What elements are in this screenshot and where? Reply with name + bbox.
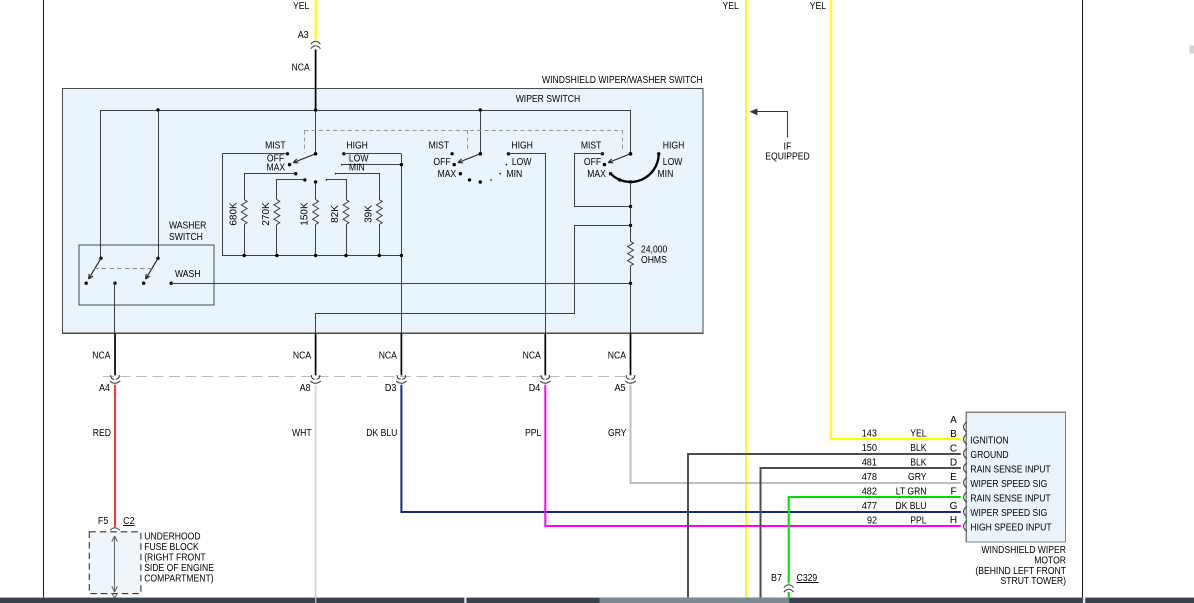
svg-text:F: F [950,486,956,497]
svg-text:MIST: MIST [429,140,450,151]
svg-text:BLK: BLK [910,443,927,454]
svg-text:B7: B7 [771,573,782,584]
svg-text:DK BLU: DK BLU [366,428,397,439]
svg-text:PPL: PPL [910,515,927,526]
svg-text:BLK: BLK [910,457,927,468]
svg-text:A3: A3 [298,30,309,41]
svg-text:WHT: WHT [292,428,312,439]
svg-text:NCA: NCA [523,351,541,362]
svg-text:478: 478 [862,472,878,483]
svg-text:39K: 39K [364,205,375,223]
svg-text:477: 477 [862,501,878,512]
svg-text:LOW: LOW [512,157,532,168]
svg-text:H: H [950,515,957,526]
svg-text:GROUND: GROUND [970,450,1008,461]
svg-text:482: 482 [862,486,878,497]
svg-text:24,000: 24,000 [641,245,668,256]
svg-text:G: G [950,501,958,512]
svg-text:LT GRN: LT GRN [896,486,927,497]
svg-text:MOTOR: MOTOR [1034,556,1066,567]
svg-text:OHMS: OHMS [641,255,667,266]
svg-text:SWITCH: SWITCH [169,232,203,243]
svg-text:DK BLU: DK BLU [895,501,926,512]
svg-text:RAIN SENSE INPUT: RAIN SENSE INPUT [970,465,1050,476]
svg-text:IGNITION: IGNITION [970,436,1008,447]
svg-text:COMPARTMENT): COMPARTMENT) [144,574,213,585]
svg-text:A8: A8 [300,383,311,394]
svg-text:YEL: YEL [810,1,827,12]
svg-text:RED: RED [93,428,111,439]
svg-text:92: 92 [867,515,877,526]
svg-text:C: C [950,444,957,455]
svg-text:270K: 270K [261,202,272,226]
svg-text:HIGH: HIGH [346,140,368,151]
svg-text:WINDSHIELD WIPER: WINDSHIELD WIPER [981,545,1066,556]
svg-text:WIPER SPEED SIG: WIPER SPEED SIG [970,508,1047,519]
svg-text:MAX: MAX [267,163,286,174]
svg-text:F5: F5 [98,516,109,527]
svg-text:MIN: MIN [349,163,365,174]
svg-text:GRY: GRY [608,428,627,439]
svg-text:D: D [950,457,957,468]
svg-text:GRY: GRY [908,472,927,483]
svg-text:481: 481 [862,457,878,468]
svg-text:YEL: YEL [910,428,927,439]
svg-text:HIGH: HIGH [511,140,533,151]
svg-text:NCA: NCA [292,63,310,74]
svg-text:MIN: MIN [506,169,522,180]
svg-text:A4: A4 [99,383,110,394]
svg-text:PPL: PPL [525,428,542,439]
svg-text:B: B [950,429,957,440]
svg-text:WINDSHIELD WIPER/WASHER SWITCH: WINDSHIELD WIPER/WASHER SWITCH [542,75,703,86]
svg-text:RAIN SENSE INPUT: RAIN SENSE INPUT [970,494,1050,505]
svg-text:WASH: WASH [175,269,201,280]
svg-text:OFF: OFF [433,157,450,168]
svg-text:SIDE OF ENGINE: SIDE OF ENGINE [144,563,214,574]
svg-text:E: E [950,472,957,483]
svg-text:UNDERHOOD: UNDERHOOD [144,531,200,542]
svg-text:680K: 680K [229,202,240,226]
svg-text:MAX: MAX [438,169,457,180]
svg-text:NCA: NCA [608,351,626,362]
svg-text:150: 150 [862,443,878,454]
svg-text:(RIGHT FRONT: (RIGHT FRONT [144,553,206,564]
svg-text:150K: 150K [300,202,311,226]
svg-text:WIPER SWITCH: WIPER SWITCH [516,94,581,105]
svg-text:82K: 82K [330,205,341,223]
svg-text:MIN: MIN [658,169,674,180]
svg-text:HIGH: HIGH [663,140,685,151]
svg-text:MIST: MIST [265,140,286,151]
svg-text:YEL: YEL [293,1,310,12]
svg-text:NCA: NCA [379,351,397,362]
svg-text:143: 143 [862,428,878,439]
svg-text:LOW: LOW [663,157,683,168]
svg-text:NCA: NCA [92,351,110,362]
svg-text:OFF: OFF [584,157,601,168]
svg-text:WIPER SPEED SIG: WIPER SPEED SIG [970,479,1047,490]
svg-text:MAX: MAX [587,169,606,180]
svg-text:EQUIPPED: EQUIPPED [765,152,809,163]
svg-text:D4: D4 [529,383,541,394]
svg-text:A5: A5 [615,383,626,394]
svg-text:D3: D3 [385,383,397,394]
svg-text:HIGH SPEED INPUT: HIGH SPEED INPUT [970,523,1051,534]
svg-text:FUSE BLOCK: FUSE BLOCK [144,542,199,553]
svg-text:WASHER: WASHER [169,221,206,232]
svg-text:MIST: MIST [581,140,602,151]
svg-text:A: A [950,415,957,426]
svg-text:STRUT TOWER): STRUT TOWER) [1001,576,1067,587]
svg-text:YEL: YEL [723,1,740,12]
svg-text:NCA: NCA [293,351,311,362]
